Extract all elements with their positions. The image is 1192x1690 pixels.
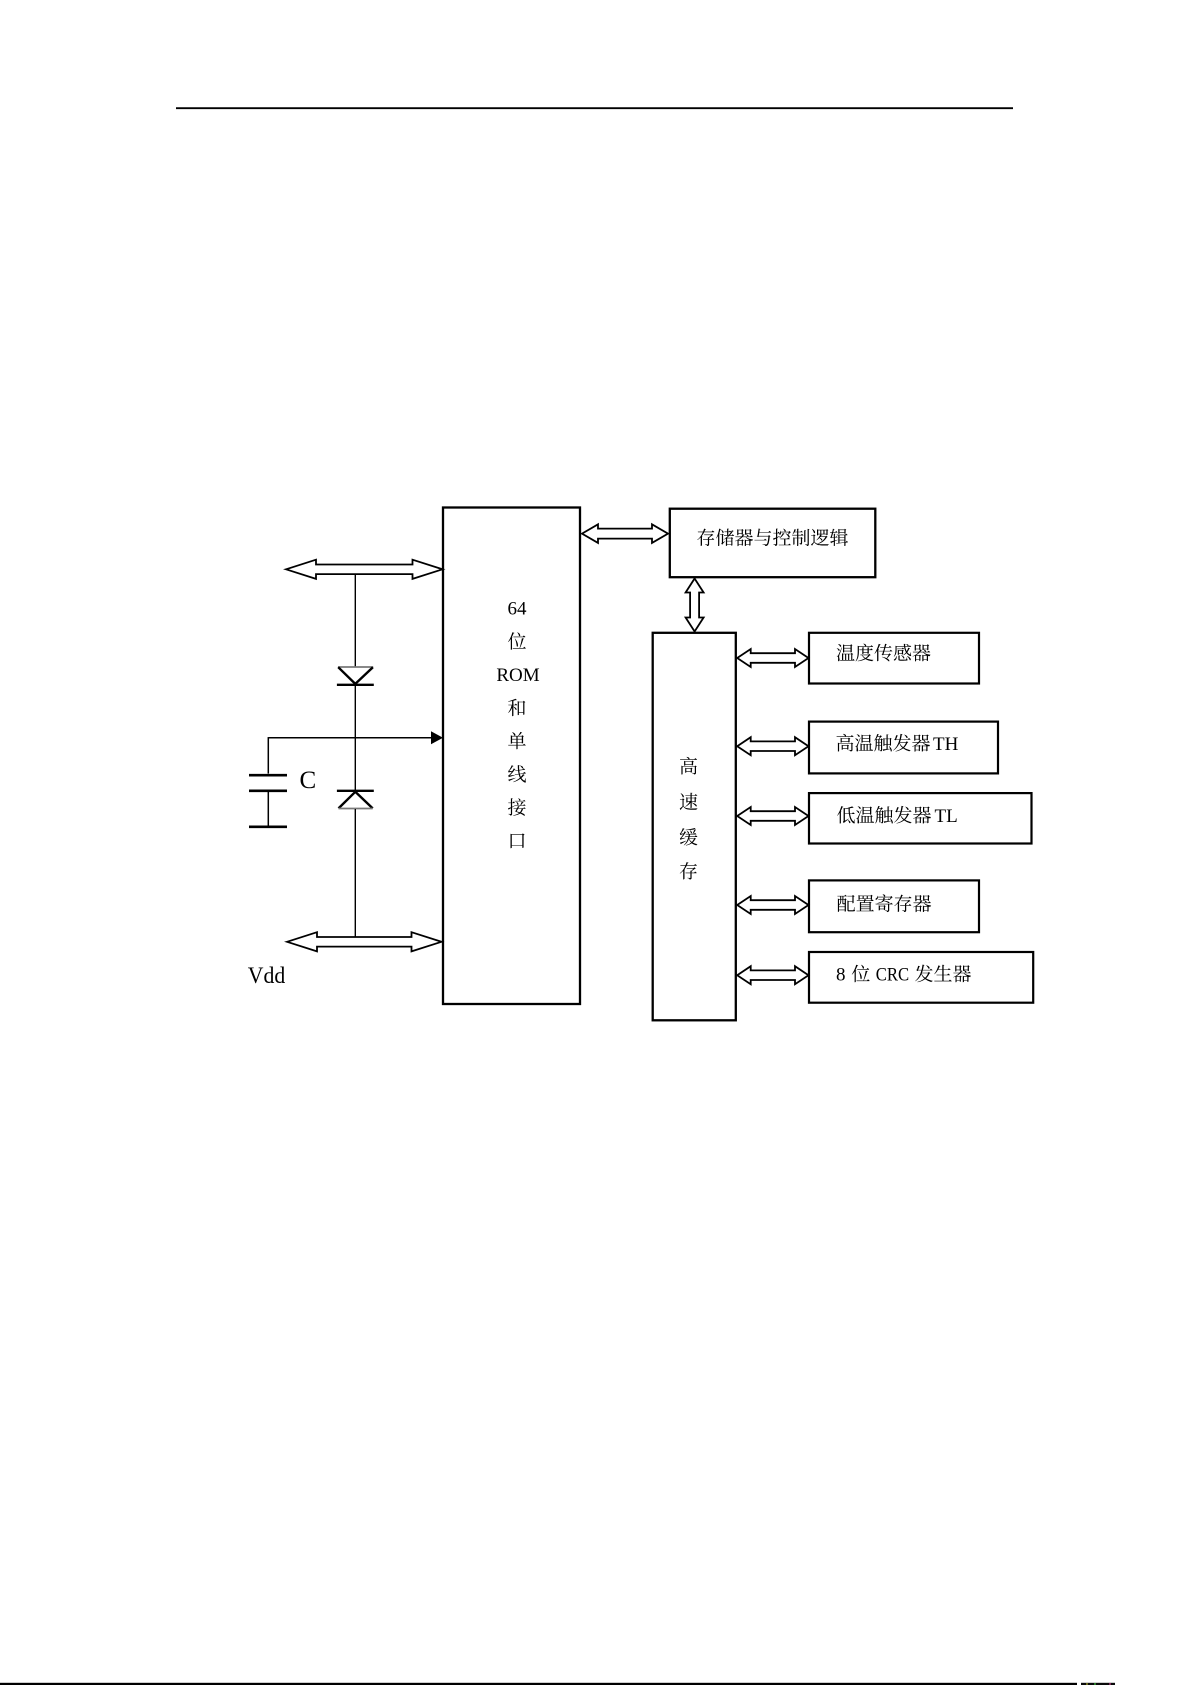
label high temp trigger [837, 734, 959, 755]
box U4 temperature sensor [809, 633, 979, 684]
label 线 column line 6 [508, 765, 526, 782]
label scratchpad char 4 [680, 862, 697, 879]
wire vertical D2 to Vdd bus [354, 809, 356, 937]
double arrow scratchpad to temperature sensor [737, 649, 808, 667]
top rule [176, 107, 1013, 109]
double arrow memory/control to scratchpad [686, 579, 704, 632]
label ROM [496, 665, 539, 686]
box U2 memory and control logic [670, 509, 876, 578]
double arrow scratchpad to TL trigger [737, 807, 808, 825]
label 单 column line 5 [508, 732, 526, 749]
label 和 column line 4 [508, 699, 525, 716]
double arrow Vdd bus to ROM box [287, 932, 442, 951]
svg-text:C: C [300, 767, 317, 794]
diode D1 (parasite power) [337, 667, 374, 685]
bottom rule right segment [1081, 1683, 1115, 1685]
label scratchpad char 1 [680, 757, 697, 775]
svg-text:CRC: CRC [876, 965, 909, 986]
svg-text:ROM: ROM [496, 665, 539, 686]
capacitor C bottom plate [249, 789, 287, 792]
label scratchpad char 2 [680, 793, 698, 810]
label scratchpad char 3 [680, 828, 698, 846]
label C [300, 767, 317, 794]
double arrow scratchpad to TH trigger [737, 737, 808, 755]
double arrow DQ bus to ROM box [286, 560, 443, 579]
diode D2 (pointing up) [339, 792, 373, 809]
svg-text:Vdd: Vdd [248, 963, 286, 989]
box U8 8-bit CRC generator [809, 952, 1033, 1003]
double arrow scratchpad to CRC generator [737, 966, 808, 984]
wire vertical between D1 and DQ junction [354, 686, 356, 790]
svg-text:64: 64 [508, 599, 528, 620]
box U7 configuration register [809, 880, 979, 932]
wire vertical DQ net upper [354, 574, 356, 667]
wire horizontal DQ to ROM box with arrowhead [268, 731, 443, 744]
label low temp trigger [837, 806, 958, 827]
svg-text:TH: TH [933, 734, 959, 755]
ground bar below capacitor [249, 825, 287, 828]
diode D2 cathode bar [337, 790, 374, 792]
label 8-bit CRC generator [836, 965, 971, 986]
double arrow scratchpad to config register [737, 896, 808, 914]
label 接 column line 7 [508, 798, 526, 816]
svg-text:8: 8 [836, 965, 846, 986]
label memory and control logic [697, 529, 848, 547]
double arrow ROM to memory/control [582, 524, 668, 543]
label config register [837, 894, 931, 912]
box U1 64-bit ROM and 1-wire interface [443, 508, 580, 1005]
label wei (bit) [508, 632, 526, 649]
wire capacitor branch corner down [267, 737, 269, 774]
box U5 high temperature trigger TH [809, 722, 998, 774]
wire capacitor to ground bar [267, 792, 269, 826]
box U3 scratchpad (high-speed cache) [653, 633, 736, 1021]
label 64 [508, 599, 528, 620]
label 口 column line 8 [511, 833, 525, 848]
label temperature sensor [837, 644, 931, 662]
bottom rule left segment [0, 1683, 1077, 1685]
capacitor C top plate [249, 774, 287, 777]
label Vdd [248, 963, 286, 989]
box U6 low temperature trigger TL [809, 793, 1032, 843]
svg-text:TL: TL [935, 806, 958, 827]
